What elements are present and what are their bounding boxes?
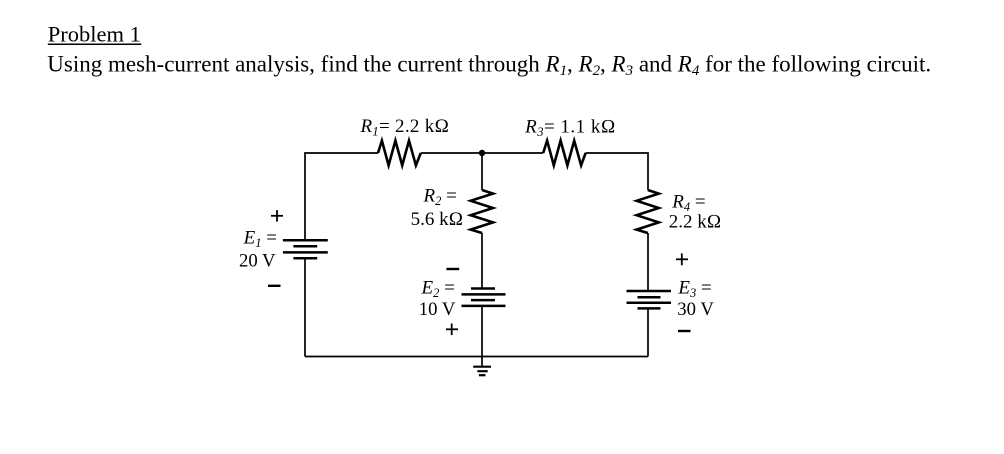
battery E3	[627, 291, 672, 308]
wire: right branch between R4 and E3	[647, 233, 649, 291]
battery E2 minus mark	[446, 268, 459, 270]
svg-text:Using mesh-current analysis, f: Using mesh-current analysis, find the cu…	[47, 52, 931, 79]
svg-text:10 V: 10 V	[419, 299, 456, 320]
svg-text:5.6 kΩ: 5.6 kΩ	[411, 209, 464, 230]
wire: top-left segment	[305, 153, 378, 240]
battery E3 plus mark	[676, 253, 688, 265]
resistor R2	[471, 190, 493, 233]
battery E1 plus mark	[271, 210, 283, 222]
ground	[473, 367, 491, 376]
wire: bottom segment	[305, 356, 648, 358]
wire: left branch lower	[304, 258, 306, 356]
wire: middle branch upper	[481, 153, 483, 190]
battery E2	[462, 289, 506, 306]
wire: top-right segment	[586, 153, 648, 190]
resistor R4	[637, 190, 659, 233]
svg-text:2.2 kΩ: 2.2 kΩ	[669, 211, 722, 232]
svg-text:20 V: 20 V	[239, 251, 276, 272]
svg-text:30 V: 30 V	[677, 299, 714, 320]
resistor R1	[378, 141, 421, 166]
svg-text:Problem 1: Problem 1	[48, 22, 141, 47]
wire: right branch lower	[647, 308, 649, 356]
wire: top-middle segment	[421, 152, 543, 154]
title underline	[48, 43, 142, 45]
ground stem	[481, 357, 483, 367]
wire: middle branch between R2 and E2	[481, 233, 483, 289]
battery E1	[283, 240, 328, 258]
wire: middle branch lower	[481, 306, 483, 357]
battery E3 minus mark	[678, 330, 691, 332]
resistor R3	[543, 141, 585, 166]
battery E1 minus mark	[268, 285, 281, 287]
battery E2 plus mark	[446, 324, 458, 336]
node junction dot	[479, 150, 485, 156]
